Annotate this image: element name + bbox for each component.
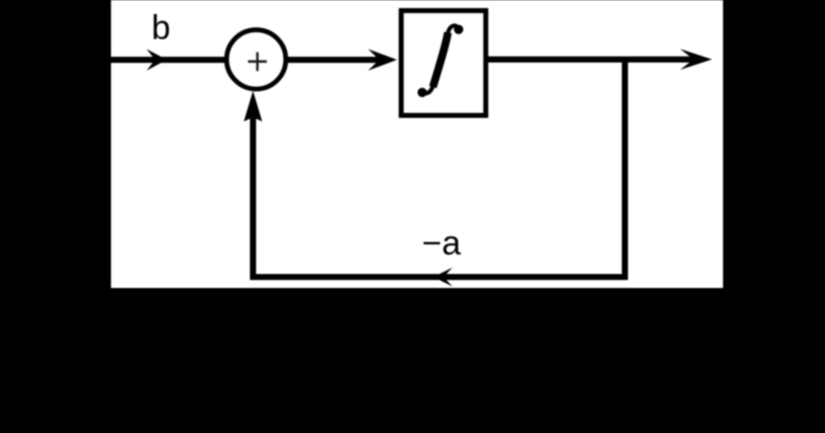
plus sign <box>248 52 267 71</box>
arrowhead output <box>680 49 712 70</box>
wire integrator to output <box>488 56 694 62</box>
arrowhead feedback up into summing junction <box>244 91 262 122</box>
arrowhead into integrator <box>368 49 397 71</box>
wire summing junction to integrator <box>288 57 380 63</box>
integrator block <box>401 11 486 116</box>
label b <box>152 9 171 47</box>
svg-text:−a: −a <box>422 224 461 262</box>
summing junction <box>227 30 286 89</box>
label -a <box>422 224 461 262</box>
arrowhead feedback left <box>433 268 452 287</box>
feedback wire: branch down, across, and up to summing junction <box>253 62 625 277</box>
integral symbol <box>418 25 464 97</box>
svg-text:b: b <box>152 9 171 47</box>
arrowhead input mid <box>147 49 167 71</box>
diagram canvas background <box>111 0 723 288</box>
wire input segment <box>111 57 228 63</box>
